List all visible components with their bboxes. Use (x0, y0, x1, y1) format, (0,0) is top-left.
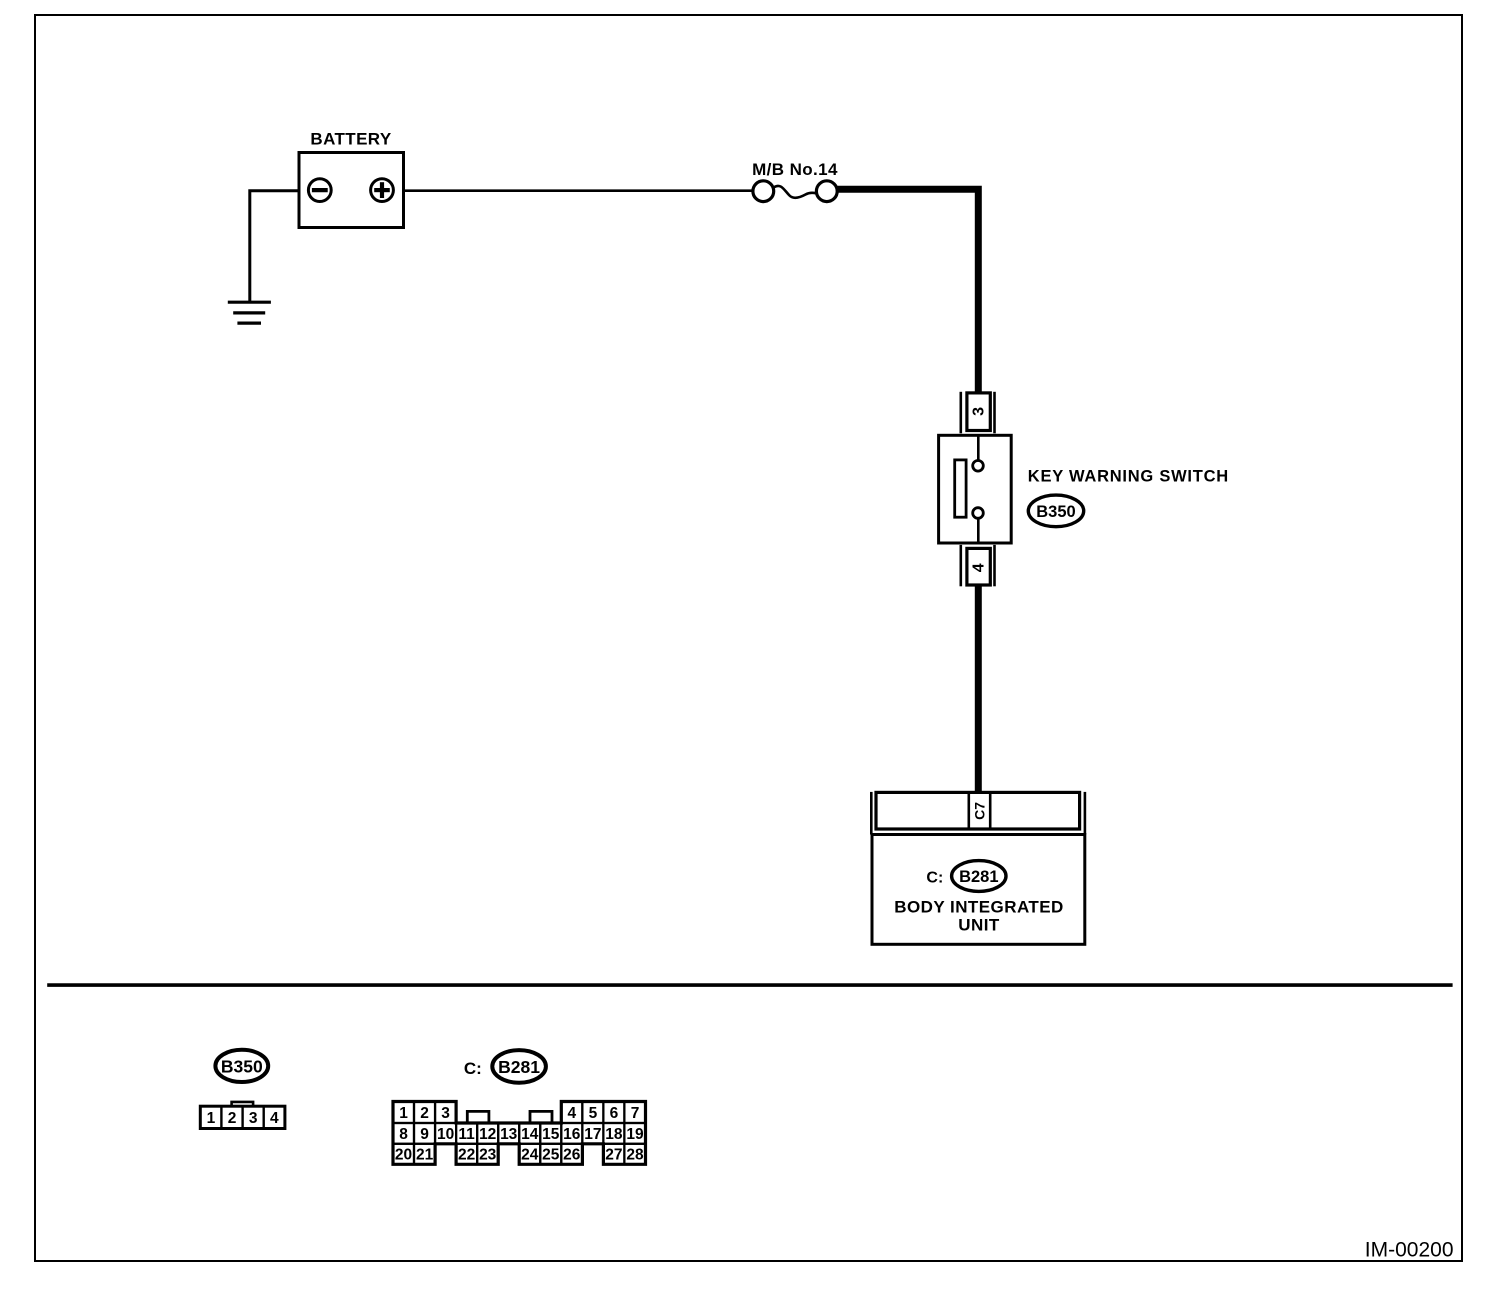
svg-text:2: 2 (228, 1110, 237, 1127)
svg-text:25: 25 (542, 1147, 560, 1164)
svg-text:B281: B281 (498, 1057, 540, 1077)
key warning switch body B350 (939, 435, 1012, 543)
C7 cell dividers (967, 792, 970, 829)
svg-text:20: 20 (395, 1147, 412, 1164)
svg-text:5: 5 (589, 1105, 598, 1122)
key warning switch connector pin 4 outer prongs (961, 545, 995, 586)
svg-text:28: 28 (626, 1147, 644, 1164)
svg-text:18: 18 (605, 1126, 623, 1143)
key warning switch pin 4 box (967, 548, 990, 585)
svg-text:17: 17 (584, 1126, 601, 1143)
svg-text:10: 10 (437, 1126, 454, 1143)
key warning switch pin 3 box (967, 393, 990, 431)
svg-text:3: 3 (971, 407, 988, 416)
svg-text:4: 4 (270, 1110, 279, 1127)
svg-text:B350: B350 (1036, 503, 1075, 521)
connector C:B281 outer contour (393, 1102, 646, 1165)
svg-text:27: 27 (605, 1147, 622, 1164)
svg-text:26: 26 (563, 1147, 581, 1164)
svg-text:BATTERY: BATTERY (310, 130, 391, 149)
switch internal wire top (977, 435, 980, 460)
svg-text:9: 9 (420, 1126, 429, 1143)
svg-text:14: 14 (521, 1126, 539, 1143)
connector C:B281 polarization tab between pins 14/15 (530, 1111, 552, 1123)
svg-text:KEY WARNING SWITCH: KEY WARNING SWITCH (1028, 468, 1229, 486)
connector oval B281 (bottom legend) (492, 1050, 546, 1083)
svg-text:15: 15 (542, 1126, 560, 1143)
svg-text:M/B No.14: M/B No.14 (752, 160, 838, 179)
connector B350 pin box (200, 1106, 285, 1128)
svg-text:IM-00200: IM-00200 (1365, 1239, 1454, 1262)
svg-text:24: 24 (521, 1147, 539, 1164)
svg-text:C:: C: (464, 1059, 482, 1078)
thick wire fuse to key warning switch pin 3 (837, 189, 979, 392)
connector B350 pin numbers (207, 1110, 279, 1127)
battery positive terminal (371, 179, 394, 202)
svg-text:1: 1 (399, 1105, 408, 1122)
connector oval B281 (in unit) (952, 861, 1006, 892)
svg-text:1: 1 (207, 1110, 216, 1127)
body integrated unit box (872, 835, 1085, 945)
svg-text:4: 4 (971, 563, 988, 572)
svg-text:3: 3 (249, 1110, 258, 1127)
svg-text:12: 12 (479, 1126, 496, 1143)
svg-text:C7: C7 (971, 802, 987, 820)
BIU connector strip C7 (876, 792, 1080, 829)
switch contact top (973, 461, 984, 472)
connector B350 pin dividers (221, 1106, 263, 1128)
key warning switch connector pin 3 outer prongs (961, 392, 995, 434)
battery box (299, 153, 404, 228)
svg-text:23: 23 (479, 1147, 497, 1164)
BIU connector bracket right prong (1084, 792, 1087, 835)
svg-text:13: 13 (500, 1126, 518, 1143)
switch internal wire bottom (977, 518, 980, 543)
ground (228, 302, 271, 323)
svg-text:UNIT: UNIT (958, 915, 1000, 934)
BIU connector bracket left prong (870, 792, 873, 835)
svg-text:BODY INTEGRATED: BODY INTEGRATED (894, 897, 1064, 916)
svg-text:16: 16 (563, 1126, 581, 1143)
svg-text:22: 22 (458, 1147, 475, 1164)
svg-text:8: 8 (399, 1126, 408, 1143)
svg-text:B350: B350 (221, 1056, 263, 1076)
connector C:B281 pin numbers (395, 1105, 644, 1164)
thick wire switch pin 4 to body integrated unit (975, 585, 982, 793)
wire battery positive to fuse (404, 189, 753, 192)
fuse M/B No.14 (753, 181, 837, 202)
svg-text:B281: B281 (959, 868, 998, 886)
switch contact bottom (973, 508, 984, 519)
wire battery negative to ground (250, 191, 299, 302)
svg-text:21: 21 (416, 1147, 434, 1164)
svg-text:19: 19 (626, 1126, 644, 1143)
separator line (47, 983, 1452, 987)
svg-text:3: 3 (441, 1105, 450, 1122)
connector oval B350 (1028, 495, 1083, 527)
connector C:B281 pin grid cells (393, 1102, 645, 1165)
svg-text:6: 6 (610, 1105, 619, 1122)
switch key actuator bar (955, 460, 966, 517)
svg-text:7: 7 (631, 1105, 640, 1122)
svg-text:C:: C: (926, 869, 943, 886)
svg-text:2: 2 (420, 1105, 429, 1122)
connector C:B281 polarization tab between pins 11/12 (467, 1111, 489, 1123)
svg-text:4: 4 (567, 1105, 576, 1122)
connector B350 polarization tab (232, 1102, 254, 1106)
connector oval B350 (bottom legend) (215, 1050, 268, 1082)
svg-text:11: 11 (458, 1126, 475, 1143)
battery negative terminal (308, 179, 331, 202)
